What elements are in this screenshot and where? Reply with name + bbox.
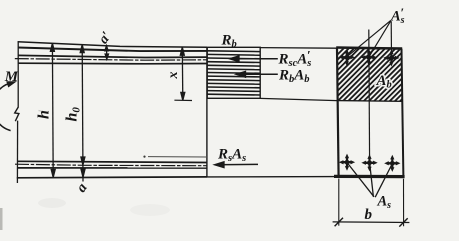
top rebar mark 2 bbox=[362, 50, 375, 64]
svg-text:RbAb: RbAb bbox=[278, 68, 310, 86]
bottom bars centroid dash-dot line bbox=[15, 164, 207, 166]
svg-text:As′: As′ bbox=[390, 5, 405, 26]
stress block Rb outline bbox=[207, 47, 260, 98]
leader As' to rebar 1 bbox=[348, 21, 391, 57]
leader As from rebar 2 bbox=[370, 164, 374, 197]
dimension line h0 bbox=[80, 45, 85, 182]
dimension line a' bbox=[105, 46, 109, 60]
b dimension tick right bbox=[399, 218, 407, 226]
b dimension line bbox=[333, 221, 410, 224]
moment curved arrow bbox=[0, 83, 14, 131]
bottom rebar mark 1 bbox=[340, 155, 353, 169]
top rebar mark 1 bbox=[340, 50, 353, 64]
leader As' to rebar 3 bbox=[390, 21, 392, 56]
label As bbox=[377, 194, 392, 212]
section vertical centerline bbox=[368, 30, 371, 163]
bottom rebar mark 2 bbox=[363, 156, 376, 170]
stress block horizontal hatching bbox=[207, 51, 260, 95]
x lower reference tick bbox=[174, 99, 192, 101]
label Rs As bbox=[217, 147, 246, 165]
top bars centroid dash-dot line bbox=[15, 59, 207, 61]
neutral-axis level line to section bbox=[260, 98, 337, 100]
cross-section top edge bbox=[336, 48, 402, 49]
b dimension extension line left bbox=[338, 179, 340, 226]
scan smudge left margin bbox=[0, 208, 3, 230]
beam elevation top edge bbox=[18, 42, 207, 47]
bottom reinforcement line 3 bbox=[18, 167, 207, 169]
top reinforcement line 5 bbox=[18, 62, 207, 65]
label As' bbox=[390, 5, 405, 26]
svg-text:a: a bbox=[73, 180, 90, 195]
faint stray mark bbox=[39, 110, 43, 113]
svg-text:h0: h0 bbox=[64, 107, 83, 122]
svg-text:As: As bbox=[377, 194, 392, 212]
beam elevation right edge bbox=[206, 47, 208, 177]
middle region top edge bbox=[260, 47, 337, 50]
leader As from rebar 3 bbox=[375, 164, 392, 197]
label Rb bbox=[221, 33, 237, 51]
svg-text:RsAs: RsAs bbox=[217, 147, 246, 165]
cross-section bottom edge bbox=[334, 175, 405, 178]
svg-text:RscAs′: RscAs′ bbox=[278, 48, 312, 70]
dimension line x bbox=[180, 47, 185, 100]
faint ink speck bbox=[143, 156, 145, 158]
faint ghost smudge 1 bbox=[38, 198, 66, 208]
top reinforcement line 2 bbox=[18, 48, 207, 52]
middle region bottom edge bbox=[207, 176, 337, 178]
svg-text:a′: a′ bbox=[96, 29, 115, 47]
svg-text:b: b bbox=[365, 207, 373, 223]
dimension line h bbox=[50, 43, 55, 177]
svg-text:x: x bbox=[166, 72, 181, 80]
compression zone bottom boundary bbox=[337, 100, 402, 103]
bottom reinforcement line 1 bbox=[18, 161, 207, 162]
faint ghost smudge 2 bbox=[130, 204, 170, 216]
svg-text:h: h bbox=[36, 110, 53, 119]
force arrow Rsc As' bbox=[230, 56, 278, 62]
label Rb Ab bbox=[278, 68, 310, 86]
compression zone diagonal hatching bbox=[288, 42, 459, 104]
beam elevation left edge lower part bbox=[16, 121, 18, 183]
cross-section left edge bbox=[337, 48, 339, 177]
b dimension extension line right bbox=[403, 179, 405, 226]
top rebar mark 3 bbox=[385, 51, 398, 65]
cross-section right edge bbox=[402, 49, 404, 178]
break zigzag on left edge bbox=[15, 107, 19, 121]
label Ab bbox=[376, 73, 392, 91]
label Rsc As' bbox=[278, 48, 312, 70]
force arrow Rb Ab bbox=[236, 71, 278, 77]
force arrow Rs As bbox=[215, 162, 259, 168]
top reinforcement line 3 bbox=[18, 55, 207, 57]
leader As' to rebar 2 bbox=[369, 21, 390, 56]
beam elevation bottom edge bbox=[17, 176, 207, 179]
bottom rebar mark 3 bbox=[386, 156, 399, 170]
bottom stray thin line bbox=[148, 156, 207, 158]
b dimension tick left bbox=[335, 218, 343, 226]
beam elevation left edge upper part bbox=[17, 41, 19, 107]
label h0 bbox=[64, 107, 83, 122]
svg-text:Rb: Rb bbox=[221, 33, 237, 51]
leader As from rebar 1 bbox=[347, 163, 374, 197]
